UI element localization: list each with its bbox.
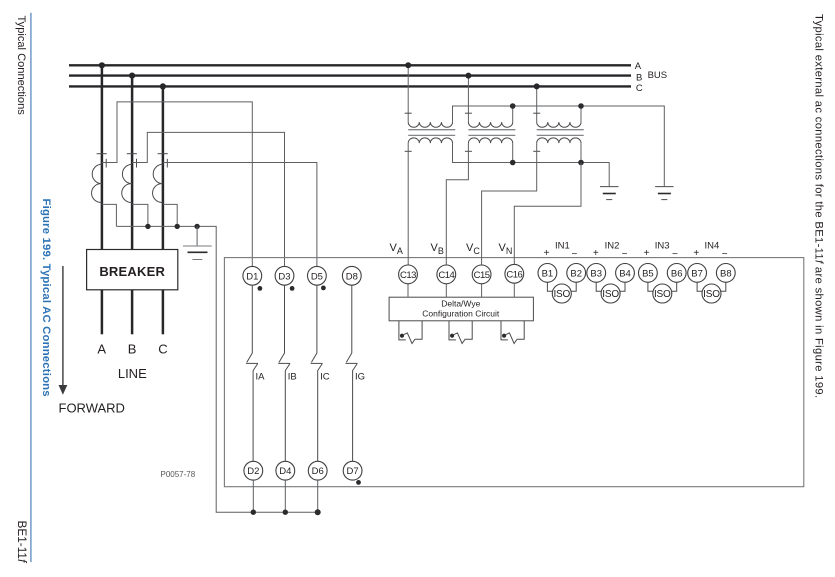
wire: B3 to ISO2 [596, 282, 602, 291]
svg-text:Configuration Circuit: Configuration Circuit [422, 309, 500, 319]
phase A feeder (thick vertical) [101, 65, 104, 250]
svg-text:−: − [722, 249, 728, 260]
BUS label [648, 70, 668, 81]
bus label A [635, 61, 642, 72]
terminal D2 [244, 461, 263, 480]
terminal D3 [275, 266, 294, 285]
left margin header text [15, 16, 27, 116]
svg-text:B: B [128, 341, 137, 356]
terminal B7 [688, 264, 707, 283]
isolation block ISO2 [601, 284, 620, 303]
label VC [466, 242, 480, 256]
wire: CT C return lead [163, 204, 177, 226]
wire: CT A polarity lead to D1 [102, 102, 252, 267]
terminal B3 [587, 264, 606, 283]
svg-text:B3: B3 [590, 268, 602, 279]
wire: B1 to ISO1 [547, 282, 553, 291]
svg-text:B: B [636, 72, 642, 83]
wire: C16 to U1 [513, 283, 515, 297]
bus phase B line [69, 74, 631, 76]
wire: CT A return lead [102, 204, 117, 226]
bus label B [636, 72, 642, 83]
node: D6 return junction [315, 509, 321, 515]
config switch S3 [501, 321, 524, 344]
line B below breaker [131, 290, 134, 335]
wire: B4 to ISO2 [619, 282, 625, 291]
wire: D2 return stub [252, 480, 254, 512]
terminal D1 [243, 266, 262, 285]
svg-text:D4: D4 [279, 466, 291, 477]
node: T2 secondary neutral junction [510, 160, 516, 166]
wire: T2 secondary right terminal [512, 143, 514, 162]
bus phase C line [69, 85, 631, 87]
svg-text:Delta/Wye: Delta/Wye [441, 299, 480, 309]
config switch S2 [449, 321, 472, 344]
label VN [499, 242, 513, 256]
svg-text:D5: D5 [311, 271, 323, 282]
svg-text:P0057-78: P0057-78 [161, 470, 196, 479]
svg-text:C14: C14 [438, 270, 454, 281]
CT phase C [153, 154, 168, 203]
wire: B2 to ISO1 [571, 282, 577, 291]
phase C feeder (thick vertical) [162, 86, 165, 250]
config switch S1 [399, 321, 422, 344]
wire: B5 to ISO3 [648, 282, 654, 291]
label FORWARD [59, 401, 125, 416]
wire: VN to C16 [514, 163, 581, 265]
terminal D4 [276, 461, 295, 480]
wire: D4 return stub [284, 480, 286, 512]
wire: T3 secondary right terminal [580, 143, 582, 162]
svg-text:−: − [571, 249, 577, 260]
VT primary drop phase C [534, 83, 540, 122]
label IN4 [693, 241, 727, 261]
svg-text:D2: D2 [247, 466, 259, 477]
wire: B8 to ISO4 [720, 282, 726, 291]
isolation block ISO1 [552, 284, 571, 303]
svg-text:LINE: LINE [118, 366, 147, 381]
node: D5 polarity dot [321, 286, 326, 291]
relay case box [224, 258, 803, 487]
svg-text:IN2: IN2 [605, 241, 620, 252]
node: CT B return junction [145, 224, 150, 229]
svg-text:+: + [693, 248, 699, 259]
VT primary drop phase A [405, 62, 411, 122]
svg-text:D1: D1 [246, 271, 258, 282]
breaker BKR [87, 250, 178, 290]
label IN2 [593, 241, 628, 261]
wire: B7 to ISO4 [697, 282, 703, 291]
node: CT ground tap junction [194, 224, 199, 229]
wire: CT C polarity lead to D5 [163, 163, 317, 267]
svg-text:IN1: IN1 [555, 241, 570, 252]
label VB [431, 242, 444, 256]
svg-text:B6: B6 [671, 268, 683, 279]
terminal B6 [667, 264, 686, 283]
svg-text:ISO: ISO [553, 289, 570, 300]
svg-text:BUS: BUS [648, 70, 668, 81]
wire: T2 primary right terminal [512, 106, 514, 122]
svg-text:ISO: ISO [703, 289, 720, 300]
svg-text:B4: B4 [619, 268, 631, 279]
phase B feeder (thick vertical) [131, 76, 134, 250]
svg-text:B7: B7 [691, 268, 703, 279]
label A [97, 341, 106, 356]
terminal B1 [538, 264, 557, 283]
svg-text:B2: B2 [570, 268, 582, 279]
svg-text:C13: C13 [400, 270, 416, 281]
terminal B8 [716, 264, 735, 283]
svg-text:Figure 199. Typical AC Connect: Figure 199. Typical AC Connections [40, 199, 52, 397]
svg-text:IN4: IN4 [705, 241, 720, 252]
svg-text:A: A [635, 61, 642, 72]
label P0057-78 [161, 470, 196, 479]
wire: CT common return to relay [116, 226, 316, 512]
node: D2 return junction [251, 510, 256, 515]
wire: VC to C15 [482, 143, 537, 265]
wire: T3 primary right terminal [580, 106, 582, 122]
node: bus A tap [99, 62, 105, 68]
switch IA [246, 285, 265, 461]
svg-text:IN3: IN3 [655, 241, 670, 252]
isolation block ISO4 [702, 284, 721, 303]
terminal C15 [472, 265, 491, 284]
svg-text:+: + [593, 248, 599, 259]
terminal B4 [616, 264, 635, 283]
node: T2 primary neutral junction [510, 103, 516, 109]
wire: C14 to U1 [445, 284, 447, 297]
wire: C15 to U1 [481, 284, 483, 297]
VT T1 (phase A) [405, 113, 456, 151]
svg-text:IB: IB [288, 372, 297, 383]
wire: CT B return lead [132, 204, 148, 226]
svg-text:C: C [636, 83, 643, 94]
line A below breaker [101, 290, 104, 335]
node: D4 return junction [283, 510, 288, 515]
svg-text:Typical Connections: Typical Connections [15, 16, 27, 116]
svg-text:B5: B5 [642, 268, 654, 279]
wire: VT secondary neutral [453, 143, 610, 186]
node: T3 secondary neutral junction [578, 160, 584, 166]
CT phase A [92, 154, 107, 203]
delta/wye configuration circuit U1 [389, 297, 533, 321]
terminal B2 [567, 264, 586, 283]
terminal C14 [437, 265, 456, 284]
VT T2 (phase B) [465, 113, 516, 151]
VT primary drop phase B [465, 73, 471, 123]
svg-text:C16: C16 [506, 269, 522, 280]
svg-text:BREAKER: BREAKER [99, 264, 165, 279]
isolation block ISO3 [653, 284, 672, 303]
node: D3 polarity dot [290, 286, 295, 291]
node: bus C tap [160, 83, 166, 89]
terminal D8 [342, 266, 361, 285]
wire: VB to C14 [446, 143, 468, 265]
terminal D7 [343, 461, 362, 480]
svg-text:D6: D6 [312, 466, 324, 477]
ground (VT primary neutral) [655, 187, 674, 200]
line C below breaker [162, 290, 165, 335]
bus phase A line [69, 64, 631, 66]
VT T3 (phase C) [533, 113, 584, 151]
svg-text:ISO: ISO [654, 289, 671, 300]
ground (VT secondary neutral) [600, 187, 619, 200]
svg-text:D3: D3 [278, 271, 290, 282]
wire: VT primary neutral [453, 106, 665, 186]
node: bus B tap [129, 73, 135, 79]
svg-text:B8: B8 [720, 268, 732, 279]
CT phase B [122, 154, 137, 203]
svg-text:BE1-11f: BE1-11f [15, 521, 29, 564]
wire: D6 return stub [317, 480, 319, 512]
right margin body text (vertical) [813, 14, 825, 398]
switch IB [278, 285, 296, 461]
terminal D5 [308, 266, 327, 285]
node: D1 polarity dot [258, 286, 263, 291]
svg-text:FORWARD: FORWARD [59, 401, 125, 416]
svg-text:C15: C15 [474, 270, 490, 281]
svg-text:IA: IA [256, 372, 266, 383]
svg-text:+: + [544, 248, 550, 259]
label B [128, 341, 137, 356]
terminal C16 [505, 264, 524, 283]
terminal B5 [639, 264, 658, 283]
switch IC [311, 285, 330, 461]
svg-text:IG: IG [355, 372, 365, 383]
label IN3 [644, 241, 678, 261]
switch IG [346, 285, 366, 461]
label VA [390, 242, 403, 256]
left margin footer text BE1-11f [15, 521, 29, 564]
svg-text:−: − [622, 249, 628, 260]
left margin blue rule [30, 13, 32, 562]
node: T3 primary neutral junction [578, 103, 584, 109]
svg-text:Typical external ac connection: Typical external ac connections for the … [813, 14, 825, 398]
svg-text:+: + [644, 248, 650, 259]
svg-text:D7: D7 [347, 466, 359, 477]
wire: VA to C13 [407, 143, 409, 265]
wire: B6 to ISO3 [671, 282, 677, 291]
forward arrow [59, 266, 68, 395]
wire: CT ground tap [196, 226, 198, 245]
wire: CT B polarity lead to D3 [132, 132, 284, 266]
node: CT C return junction [175, 224, 180, 229]
bus label C [636, 83, 643, 94]
label C [158, 341, 167, 356]
svg-text:IC: IC [320, 372, 330, 383]
svg-text:C: C [158, 341, 167, 356]
terminal D6 [308, 461, 327, 480]
figure caption (blue, vertical) [40, 199, 52, 397]
wire: C13 to U1 [407, 284, 409, 297]
svg-text:−: − [672, 249, 678, 260]
svg-text:A: A [97, 341, 106, 356]
label IN1 [544, 241, 578, 261]
node: D7 polarity dot [356, 480, 361, 485]
terminal C13 [399, 265, 418, 284]
svg-text:D8: D8 [346, 271, 358, 282]
label LINE [118, 366, 147, 381]
svg-text:B1: B1 [542, 268, 554, 279]
ground (CT common) [183, 246, 212, 260]
svg-text:ISO: ISO [602, 289, 619, 300]
